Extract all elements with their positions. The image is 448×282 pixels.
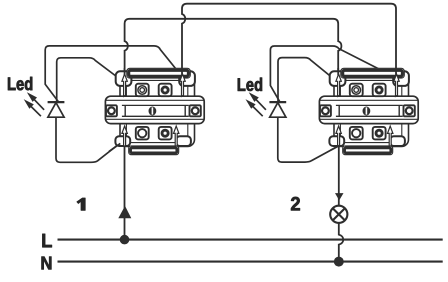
switch S2 terminal bottom-left bbox=[350, 127, 363, 139]
switch S2 top plate bbox=[341, 68, 405, 78]
switch S2 mounting ear bottom-left bbox=[329, 136, 344, 146]
wire: switch 1 output down to L bbox=[124, 147, 126, 240]
wire stub into S1 top-left ear bbox=[124, 68, 126, 75]
switch S2 terminal bottom-right bbox=[373, 127, 386, 139]
switch S1 terminal top-left bbox=[136, 84, 149, 97]
switch S2 bottom plate bbox=[343, 146, 393, 155]
switch S1 actuator slot screw bbox=[149, 107, 157, 116]
wire stub into S2 bottom-left ear bbox=[331, 145, 340, 150]
label 2 bbox=[291, 197, 300, 210]
switch S1 wire-entry arrow bottom-right bbox=[174, 126, 179, 146]
L line bbox=[58, 239, 443, 241]
switch S1 body bbox=[120, 77, 195, 147]
lamp X1 bbox=[330, 206, 347, 223]
N line bbox=[58, 261, 443, 263]
switch S1 strap screw right bbox=[190, 105, 201, 116]
LED D1 emission arrows bbox=[25, 94, 44, 117]
wire: left LED anode feed bbox=[45, 46, 178, 102]
switch S1 top plate bbox=[127, 68, 191, 78]
switch S1 mounting ear bottom-left bbox=[115, 136, 130, 146]
switch S2 wire-entry arrow bottom-left bbox=[336, 126, 341, 146]
switch S2 wire-entry arrow bottom-right bbox=[388, 126, 393, 146]
switch S2 body bbox=[334, 77, 409, 147]
wire traveler A (top) bbox=[182, 4, 396, 77]
junction on L bbox=[120, 235, 130, 245]
switch S1 mounting ear top-right bbox=[179, 71, 195, 86]
switch S1 wire-entry arrow top-left bbox=[122, 74, 127, 96]
LED D2 bbox=[269, 102, 286, 117]
LED D2 emission arrows bbox=[247, 94, 266, 117]
switch S2 strap screw left bbox=[320, 105, 331, 116]
flow arrow down (circuit 2) bbox=[335, 193, 344, 200]
wire: right LED cathode to switch bbox=[278, 58, 335, 101]
switch S2 mounting strap bbox=[319, 96, 418, 123]
switch S1 terminal bottom-left bbox=[136, 127, 149, 139]
LED D1 bbox=[48, 102, 65, 117]
wire: switch 2 output down to N bbox=[339, 147, 344, 262]
wire traveler B (second) bbox=[125, 19, 342, 76]
switch S1 wire-entry arrow bottom-left bbox=[122, 126, 127, 146]
switch S1 mounting strap bbox=[105, 96, 204, 123]
switch S1 terminal bottom-right bbox=[159, 127, 172, 139]
switch S1 wire-entry arrow top-right bbox=[180, 74, 185, 96]
label L bbox=[42, 234, 51, 247]
switch S2 wire-entry arrow top-right bbox=[394, 74, 399, 96]
wire stub into S1 top-right ear bbox=[181, 68, 183, 75]
switch S2 mounting ear top-right bbox=[393, 71, 409, 86]
switch S2 actuator slot screw bbox=[363, 107, 371, 116]
switch S2 mounting ear bottom-right bbox=[390, 136, 405, 146]
switch S2 wire-entry arrow top-left bbox=[336, 74, 341, 96]
switch S1 mounting ear bottom-right bbox=[176, 136, 191, 146]
wire stub into S1 bottom-left ear bbox=[109, 143, 120, 151]
switch S2 terminal top-left bbox=[350, 84, 363, 97]
switch S2 strap screw right bbox=[404, 105, 415, 116]
label 1 bbox=[77, 198, 86, 211]
switch S1 strap screw left bbox=[106, 105, 117, 116]
label Led (left) bbox=[8, 77, 32, 90]
switch S1 bottom plate bbox=[129, 146, 179, 155]
switch S1 terminal top-right bbox=[159, 84, 172, 97]
label N bbox=[42, 257, 52, 270]
switch S1 mounting ear top-left bbox=[116, 71, 132, 86]
switch S2 terminal top-right bbox=[373, 84, 386, 97]
wire: right LED anode feed bbox=[270, 46, 394, 102]
flow arrow up (circuit 1) bbox=[118, 206, 131, 218]
wire stub into S2 top-right ear bbox=[395, 68, 397, 75]
wire: left LED return (bottom) bbox=[56, 117, 118, 162]
label Led (right) bbox=[238, 78, 262, 91]
wire: right LED return (bottom) bbox=[278, 117, 340, 162]
wire: left LED cathode to switch bbox=[57, 58, 121, 101]
switch S2 mounting ear top-left bbox=[330, 71, 346, 86]
junction on N bbox=[334, 257, 344, 267]
wire stub into S2 top-left ear bbox=[337, 68, 339, 75]
